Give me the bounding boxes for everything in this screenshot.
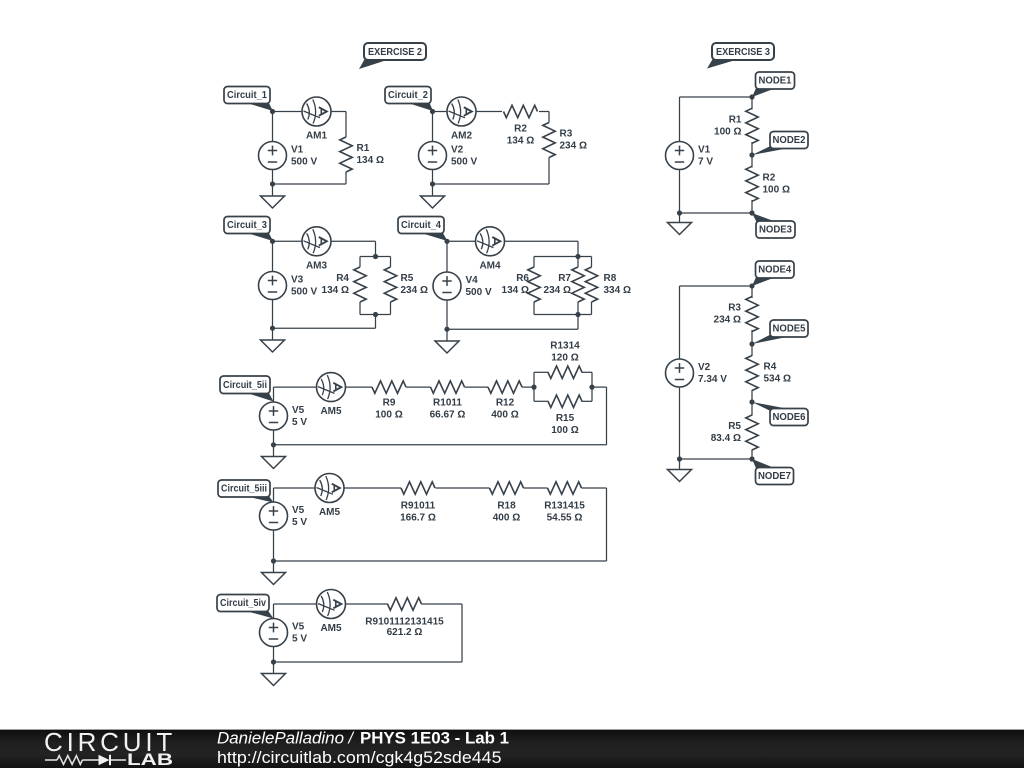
svg-text:100 Ω: 100 Ω xyxy=(714,126,741,137)
svg-text:R5: R5 xyxy=(401,273,414,284)
svg-text:R6: R6 xyxy=(516,273,529,284)
svg-text:621.2 Ω: 621.2 Ω xyxy=(387,627,423,638)
wire xyxy=(591,257,593,268)
svg-text:NODE1: NODE1 xyxy=(759,76,792,87)
ground xyxy=(261,196,285,208)
junction xyxy=(373,254,378,259)
wire xyxy=(274,444,607,446)
wire xyxy=(679,286,681,359)
ammeter AM2 xyxy=(447,97,476,142)
svg-text:400 Ω: 400 Ω xyxy=(493,513,520,524)
wire xyxy=(751,390,753,416)
wire xyxy=(582,487,607,489)
label EXERCISE 3 xyxy=(707,43,774,69)
junction xyxy=(430,181,435,186)
junction xyxy=(749,94,754,99)
wire xyxy=(274,603,389,605)
wire xyxy=(465,386,489,388)
svg-text:NODE5: NODE5 xyxy=(773,324,806,335)
wire xyxy=(548,158,550,185)
svg-text:100 Ω: 100 Ω xyxy=(763,184,790,195)
resistor R5 xyxy=(711,415,758,450)
svg-text:Circuit_5iii: Circuit_5iii xyxy=(221,484,267,495)
junction xyxy=(373,312,378,317)
wire xyxy=(680,212,753,214)
svg-text:V2: V2 xyxy=(698,362,711,373)
resistor R2 xyxy=(504,105,538,146)
wire xyxy=(680,458,753,460)
svg-text:534 Ω: 534 Ω xyxy=(764,374,791,385)
junction xyxy=(270,181,275,186)
svg-text:100 Ω: 100 Ω xyxy=(375,409,402,420)
resistor R9 xyxy=(372,381,406,420)
wire xyxy=(274,386,373,388)
svg-text:AM5: AM5 xyxy=(320,406,342,417)
resistor R91011 xyxy=(400,482,436,524)
resistor R4 xyxy=(746,356,791,391)
wire xyxy=(751,450,753,460)
wire xyxy=(360,314,391,316)
junction xyxy=(575,312,580,317)
svg-text:500 V: 500 V xyxy=(451,156,477,167)
junction xyxy=(749,152,754,157)
wire xyxy=(274,661,463,663)
svg-text:NODE7: NODE7 xyxy=(758,471,791,482)
junction xyxy=(749,399,754,404)
wire xyxy=(534,371,549,373)
svg-text:R4: R4 xyxy=(764,362,777,373)
svg-text:AM5: AM5 xyxy=(320,623,342,634)
voltage source V5 xyxy=(260,402,308,430)
wire xyxy=(406,386,431,388)
junction xyxy=(677,456,682,461)
wire xyxy=(273,111,347,113)
resistor R8 xyxy=(585,267,631,302)
svg-text:5 V: 5 V xyxy=(292,417,307,428)
ground xyxy=(262,573,286,585)
wire xyxy=(533,372,535,401)
wire xyxy=(359,257,361,268)
resistor R1011 xyxy=(430,381,466,420)
wire xyxy=(679,170,681,222)
wire xyxy=(273,387,275,402)
voltage source V2 xyxy=(666,359,728,387)
svg-text:7.34 V: 7.34 V xyxy=(698,374,727,385)
wire xyxy=(433,183,550,185)
svg-text:DanielePalladino/PHYS 1E03 - L: DanielePalladino/PHYS 1E03 - Lab 1 xyxy=(217,729,509,747)
svg-text:R8: R8 xyxy=(604,273,617,284)
svg-text:R15: R15 xyxy=(556,413,575,424)
node flag NODE3 xyxy=(752,213,795,238)
wire xyxy=(751,330,753,356)
wire xyxy=(679,388,681,470)
svg-text:V5: V5 xyxy=(292,505,305,516)
junction xyxy=(589,385,594,390)
resistor R4 xyxy=(322,267,367,302)
svg-text:R3: R3 xyxy=(728,303,741,314)
voltage source V5 xyxy=(260,619,308,647)
wire xyxy=(582,371,593,373)
junction xyxy=(270,239,275,244)
ammeter AM3 xyxy=(302,227,331,271)
svg-text:234 Ω: 234 Ω xyxy=(401,285,428,296)
voltage source V1 xyxy=(666,142,714,170)
svg-text:AM4: AM4 xyxy=(479,260,501,271)
svg-text:400 Ω: 400 Ω xyxy=(491,409,518,420)
svg-text:V3: V3 xyxy=(291,275,304,286)
wire xyxy=(751,97,753,110)
wire xyxy=(433,111,503,113)
wire xyxy=(577,241,579,256)
node flag NODE1 xyxy=(752,72,795,97)
wire xyxy=(436,487,490,489)
wire xyxy=(273,647,275,674)
node flag NODE4 xyxy=(752,261,794,286)
junction xyxy=(271,442,276,447)
wire xyxy=(679,97,681,141)
wire xyxy=(274,560,607,562)
wire xyxy=(432,170,434,197)
wire xyxy=(345,112,347,138)
resistor R5 xyxy=(384,267,428,302)
svg-text:Circuit_5ii: Circuit_5ii xyxy=(223,380,267,391)
svg-text:R12: R12 xyxy=(496,397,515,408)
ground xyxy=(668,470,692,482)
svg-text:EXERCISE 2: EXERCISE 2 xyxy=(368,46,422,58)
svg-text:334 Ω: 334 Ω xyxy=(604,285,631,296)
wire xyxy=(345,172,347,184)
svg-text:7 V: 7 V xyxy=(698,156,713,167)
junction xyxy=(444,239,449,244)
ground xyxy=(435,341,459,353)
wire xyxy=(272,241,274,271)
resistor R7 xyxy=(544,267,585,302)
svg-text:R91011: R91011 xyxy=(401,501,436,512)
svg-text:http://circuitlab.com/cgk4g52s: http://circuitlab.com/cgk4g52sde445 xyxy=(217,749,502,767)
svg-text:120 Ω: 120 Ω xyxy=(551,353,578,364)
wire xyxy=(534,314,592,316)
svg-text:R4: R4 xyxy=(336,273,349,284)
resistor R3 xyxy=(714,297,759,332)
svg-text:R2: R2 xyxy=(763,173,776,184)
svg-text:R7: R7 xyxy=(558,273,571,284)
wire xyxy=(273,327,376,329)
svg-text:134 Ω: 134 Ω xyxy=(322,285,349,296)
wire xyxy=(432,112,434,142)
wire xyxy=(360,256,391,258)
svg-text:NODE4: NODE4 xyxy=(758,265,791,276)
svg-text:AM5: AM5 xyxy=(319,507,341,518)
node flag Circuit_5iii xyxy=(218,480,274,503)
wire xyxy=(751,142,753,168)
svg-text:134 Ω: 134 Ω xyxy=(502,285,529,296)
resistor R1 xyxy=(714,108,758,143)
wire xyxy=(461,604,463,662)
svg-text:234 Ω: 234 Ω xyxy=(560,141,587,152)
junction xyxy=(575,254,580,259)
svg-text:AM1: AM1 xyxy=(306,131,328,142)
ammeter AM1 xyxy=(302,97,331,142)
wire xyxy=(533,302,535,315)
wire xyxy=(582,400,593,402)
svg-text:R1314: R1314 xyxy=(550,341,580,352)
wire xyxy=(273,183,347,185)
svg-text:V1: V1 xyxy=(291,145,304,156)
label EXERCISE 2 xyxy=(359,43,426,69)
wire xyxy=(680,285,753,287)
junction xyxy=(270,326,275,331)
svg-text:66.67 Ω: 66.67 Ω xyxy=(430,409,466,420)
wire xyxy=(577,302,579,315)
wire xyxy=(272,170,274,197)
ground xyxy=(262,457,286,469)
wire xyxy=(680,96,753,98)
node flag Circuit_4 xyxy=(398,217,448,242)
svg-text:V5: V5 xyxy=(292,622,305,633)
junction xyxy=(677,210,682,215)
wire xyxy=(539,111,549,113)
node flag Circuit_3 xyxy=(224,217,273,242)
svg-text:134 Ω: 134 Ω xyxy=(507,136,534,147)
wire xyxy=(359,302,361,315)
CircuitLab logo xyxy=(44,727,176,768)
wire xyxy=(273,240,376,242)
junction xyxy=(531,385,536,390)
svg-text:R9: R9 xyxy=(383,397,396,408)
resistor R12 xyxy=(488,381,522,420)
ground xyxy=(261,340,285,352)
footer bar xyxy=(0,729,1024,768)
wire xyxy=(606,488,608,561)
ammeter AM5 xyxy=(317,373,346,418)
wire xyxy=(375,241,377,256)
wire xyxy=(591,372,593,401)
wire xyxy=(390,302,392,315)
svg-text:R2: R2 xyxy=(514,124,527,135)
ground xyxy=(421,196,445,208)
voltage source V5 xyxy=(260,502,308,530)
resistor R18 xyxy=(490,482,524,524)
wire xyxy=(375,315,377,329)
svg-text:NODE3: NODE3 xyxy=(759,225,792,236)
svg-text:83.4 Ω: 83.4 Ω xyxy=(711,433,741,444)
svg-text:5 V: 5 V xyxy=(292,633,307,644)
node flag Circuit_5ii xyxy=(220,376,274,402)
svg-text:EXERCISE 3: EXERCISE 3 xyxy=(716,46,770,58)
svg-text:NODE6: NODE6 xyxy=(773,412,806,423)
wire xyxy=(273,604,275,619)
resistor R1314 xyxy=(548,341,582,379)
voltage source V1 xyxy=(259,142,318,170)
voltage source V4 xyxy=(433,272,492,300)
wire xyxy=(751,200,753,213)
svg-text:V4: V4 xyxy=(466,275,479,286)
svg-text:R18: R18 xyxy=(497,501,516,512)
svg-text:234 Ω: 234 Ω xyxy=(714,315,741,326)
wire xyxy=(591,302,593,315)
node flag NODE5 xyxy=(752,320,808,344)
svg-text:5 V: 5 V xyxy=(292,517,307,528)
wire xyxy=(273,488,275,502)
wire xyxy=(548,112,550,123)
svg-text:500 V: 500 V xyxy=(291,156,317,167)
svg-text:R5: R5 xyxy=(728,421,741,432)
resistor R15 xyxy=(548,395,582,436)
voltage source V3 xyxy=(259,272,318,300)
wire xyxy=(446,241,448,271)
svg-text:Circuit_4: Circuit_4 xyxy=(401,220,441,231)
wire xyxy=(577,315,579,330)
junction xyxy=(271,659,276,664)
wire xyxy=(447,328,578,330)
svg-text:NODE2: NODE2 xyxy=(773,135,806,146)
svg-text:R1: R1 xyxy=(357,143,370,154)
svg-text:166.7 Ω: 166.7 Ω xyxy=(400,513,436,524)
junction xyxy=(270,109,275,114)
junction xyxy=(749,341,754,346)
wire xyxy=(272,300,274,341)
svg-text:500 V: 500 V xyxy=(466,287,492,298)
ammeter AM5 xyxy=(315,474,344,519)
svg-text:234 Ω: 234 Ω xyxy=(544,285,571,296)
svg-text:V5: V5 xyxy=(292,405,305,416)
wire xyxy=(446,300,448,341)
ammeter AM4 xyxy=(476,227,505,271)
node flag NODE6 xyxy=(752,402,808,426)
wire xyxy=(274,487,402,489)
svg-text:R1011: R1011 xyxy=(433,397,462,408)
svg-text:Circuit_2: Circuit_2 xyxy=(388,90,428,101)
svg-text:R3: R3 xyxy=(560,129,573,140)
voltage source V2 xyxy=(419,142,478,170)
node flag Circuit_1 xyxy=(224,87,273,112)
resistor R6 xyxy=(502,267,541,302)
wire xyxy=(390,257,392,268)
node flag Circuit_2 xyxy=(385,87,433,112)
svg-text:Circuit_3: Circuit_3 xyxy=(227,220,267,231)
wire xyxy=(533,257,535,268)
wire xyxy=(522,386,534,388)
svg-text:R9101112131415: R9101112131415 xyxy=(365,617,444,628)
wire xyxy=(273,530,275,573)
wire xyxy=(524,487,548,489)
junction xyxy=(444,327,449,332)
svg-text:500 V: 500 V xyxy=(291,286,317,297)
wire xyxy=(447,240,578,242)
junction xyxy=(430,109,435,114)
svg-text:Circuit_1: Circuit_1 xyxy=(227,90,267,101)
svg-text:V1: V1 xyxy=(698,145,711,156)
node flag NODE7 xyxy=(752,459,794,485)
wire xyxy=(577,257,579,268)
resistor R131415 xyxy=(544,482,585,524)
junction xyxy=(749,456,754,461)
wire xyxy=(273,430,275,457)
wire xyxy=(534,256,592,258)
svg-text:AM2: AM2 xyxy=(451,131,473,142)
ground xyxy=(668,223,692,235)
svg-text:AM3: AM3 xyxy=(306,260,328,271)
ground xyxy=(262,674,286,686)
svg-text:LAB: LAB xyxy=(127,750,173,768)
wire xyxy=(422,603,463,605)
junction xyxy=(749,283,754,288)
wire xyxy=(534,400,549,402)
resistor R2 xyxy=(746,166,790,201)
ammeter AM5 xyxy=(317,590,346,635)
svg-text:R1: R1 xyxy=(729,115,742,126)
svg-text:134 Ω: 134 Ω xyxy=(357,155,384,166)
node flag Circuit_5iv xyxy=(217,595,274,619)
resistor R1 xyxy=(340,137,384,172)
node flag NODE2 xyxy=(752,132,808,156)
svg-text:V2: V2 xyxy=(451,145,464,156)
svg-text:54.55 Ω: 54.55 Ω xyxy=(547,513,583,524)
junction xyxy=(749,210,754,215)
resistor R9101112131415 xyxy=(365,598,444,638)
wire xyxy=(592,386,607,388)
svg-text:R131415: R131415 xyxy=(544,501,585,512)
wire xyxy=(751,286,753,298)
junction xyxy=(271,558,276,563)
svg-text:100 Ω: 100 Ω xyxy=(551,425,578,436)
resistor R3 xyxy=(543,123,587,158)
wire xyxy=(272,112,274,142)
wire xyxy=(606,387,608,445)
svg-text:Circuit_5iv: Circuit_5iv xyxy=(220,598,266,609)
